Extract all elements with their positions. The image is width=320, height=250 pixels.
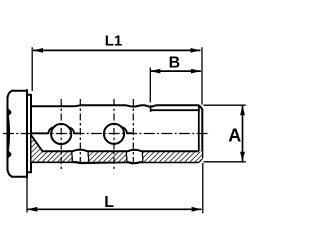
wavy break edge 2 right [141,151,144,162]
wavy break edge 1 right [87,151,90,162]
bottom edge with waves [31,162,199,163]
hatching region C (threaded end) [143,151,202,161]
svg-text:B: B [169,55,181,72]
svg-text:A: A [228,126,241,146]
collar / washer face [27,95,31,172]
hump arc left of hole 1 [48,127,53,133]
bottom right chamfer [199,158,202,162]
hatching region B (between breaks) [89,151,127,161]
right extension line (L1/B) [201,47,203,104]
chamfer circle edge [198,105,200,151]
thread minor line [151,109,200,111]
svg-text:L1: L1 [105,33,123,50]
bore top silhouette line left [31,132,49,134]
break line 1 [79,99,81,162]
hump arc right of hole 2 [122,127,133,133]
dimension L1 [32,47,200,91]
right end chamfer top [199,105,203,109]
dimension L [27,163,203,213]
wavy break edge 1 left [71,151,74,162]
cross hole 1 [51,124,71,144]
hump arc right of hole 1 [69,127,79,133]
shank top edge with break waves [31,105,199,107]
hole 1 vertical centerline [60,99,62,169]
wavy break edge 2 left [125,151,128,162]
break line 2 [132,99,134,162]
bore wall line segments with waves [42,150,199,152]
hatching region A (head side) [32,136,73,162]
dimension B [150,68,201,103]
hex head [7,90,27,178]
cross hole 2 [104,124,124,144]
main centerline (axis) [3,133,210,135]
hole 2 vertical centerline [113,99,115,169]
right end edge [201,109,203,158]
svg-text:L: L [104,194,114,211]
dimension A [204,105,246,162]
bore cone [31,135,42,151]
thread start line bottom [150,157,152,162]
thread start line top [150,105,152,112]
